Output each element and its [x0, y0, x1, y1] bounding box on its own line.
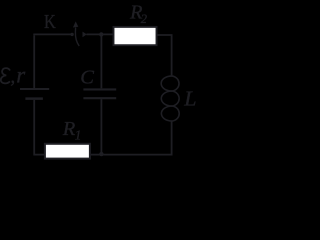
- wire left vertical upper (battery to top-left corner): [33, 35, 35, 88]
- svg-text:r: r: [16, 63, 26, 88]
- node A junction dot: [99, 32, 103, 36]
- wire switch to node A and on to R2: [86, 33, 112, 35]
- svg-text:1: 1: [75, 127, 82, 142]
- inductor loop 3: [161, 106, 179, 121]
- svg-text:,: ,: [10, 66, 15, 87]
- resistor R2: [114, 27, 157, 45]
- resistor R1: [45, 144, 90, 159]
- svg-text:L: L: [183, 86, 196, 110]
- switch K blade arc: [75, 28, 79, 47]
- node B junction dot: [99, 152, 103, 156]
- svg-text:R: R: [62, 118, 76, 140]
- inductor L (three loops): [161, 76, 179, 121]
- battery E,r long plate: [20, 88, 49, 90]
- wire right vertical lower and bottom-right corner: [101, 121, 171, 155]
- wire R1 to bottom-left corner and left vertical lower: [34, 100, 44, 155]
- wire node B to R1: [91, 154, 101, 156]
- capacitor C bottom branch wire: [100, 99, 102, 154]
- label E (script): [1, 68, 10, 83]
- inductor loop 2: [161, 91, 179, 106]
- switch K blade arrowhead: [73, 21, 78, 27]
- switch K right contact arrowhead: [83, 32, 87, 38]
- wire R2 to top-right corner and right vertical upper: [157, 35, 172, 76]
- capacitor C plates: [83, 89, 116, 98]
- switch K contact dot left: [70, 33, 73, 36]
- wire top-left horizontal to switch: [33, 33, 71, 35]
- battery E,r short plate: [25, 97, 43, 100]
- inductor loop 1: [161, 76, 179, 91]
- svg-text:C: C: [80, 67, 94, 89]
- capacitor C top branch wire: [100, 34, 102, 89]
- svg-text:K: K: [44, 11, 56, 33]
- svg-text:2: 2: [141, 12, 147, 26]
